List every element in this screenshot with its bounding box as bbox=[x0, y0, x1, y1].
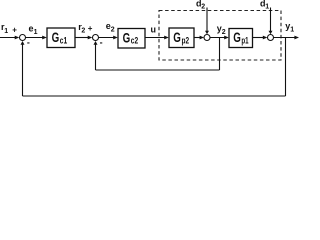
svg-text:2: 2 bbox=[201, 4, 205, 11]
svg-text:c1: c1 bbox=[60, 35, 67, 45]
wire r2 (Gc1 to summer 2) bbox=[75, 37, 90, 39]
svg-text:+: + bbox=[12, 25, 17, 34]
summing junction 3 (d2) bbox=[204, 35, 210, 41]
block Gc1 bbox=[47, 28, 75, 48]
svg-text:1: 1 bbox=[290, 27, 294, 34]
svg-text:G: G bbox=[123, 29, 131, 45]
svg-text:-: - bbox=[100, 37, 103, 47]
dashed box (process boundary) bbox=[159, 11, 281, 61]
wire Gp1 to summer 4 bbox=[253, 37, 266, 39]
block Gc2 bbox=[118, 29, 145, 49]
wire e2 bbox=[99, 37, 116, 39]
wire inner feedback tap down from y2 bbox=[219, 38, 221, 71]
wire u (Gc2 to Gp2) bbox=[145, 37, 167, 39]
summing junction 1 bbox=[20, 35, 26, 41]
wire inner feedback up into summer 2 bbox=[95, 43, 97, 70]
svg-text:2: 2 bbox=[111, 27, 115, 34]
wire inner feedback bottom run bbox=[96, 69, 220, 71]
wire y1 output bbox=[274, 37, 298, 39]
wire outer feedback bottom run bbox=[23, 95, 286, 97]
wire outer feedback tap down from y1 bbox=[285, 38, 287, 97]
svg-text:1: 1 bbox=[4, 28, 8, 35]
block Gp1 bbox=[229, 29, 253, 48]
svg-text:1: 1 bbox=[265, 4, 269, 11]
wire e1 bbox=[26, 37, 45, 39]
svg-text:2: 2 bbox=[222, 29, 226, 36]
svg-text:c2: c2 bbox=[131, 36, 138, 46]
summing junction 4 (d1) bbox=[268, 35, 274, 41]
svg-text:G: G bbox=[233, 29, 241, 45]
wire r1 input bbox=[0, 37, 17, 39]
summing junction 2 bbox=[93, 35, 99, 41]
svg-text:2: 2 bbox=[81, 28, 85, 35]
wire outer feedback up into summer 1 bbox=[22, 43, 24, 96]
svg-text:+: + bbox=[88, 24, 93, 33]
svg-text:G: G bbox=[52, 29, 60, 45]
wire d2 disturbance input bbox=[206, 8, 208, 33]
svg-text:p2: p2 bbox=[182, 35, 190, 45]
svg-text:p1: p1 bbox=[241, 36, 248, 46]
block Gp2 bbox=[169, 28, 194, 48]
svg-text:u: u bbox=[151, 25, 157, 35]
svg-text:-: - bbox=[27, 37, 30, 47]
wire d1 disturbance input bbox=[270, 8, 272, 33]
svg-text:G: G bbox=[173, 29, 181, 45]
svg-text:1: 1 bbox=[34, 29, 38, 36]
wire y2 (summer 3 to Gp1) bbox=[210, 37, 227, 39]
wire Gp2 to summer 3 bbox=[194, 37, 202, 39]
